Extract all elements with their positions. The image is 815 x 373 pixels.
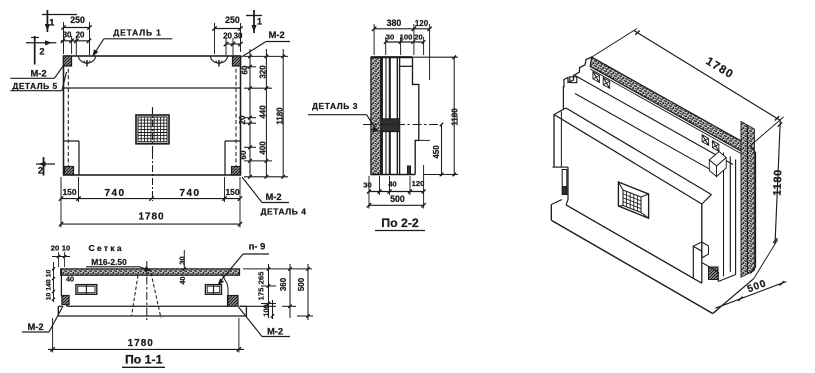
svg-text:740: 740 [104, 188, 125, 199]
svg-text:740: 740 [179, 188, 200, 199]
svg-text:40: 40 [388, 180, 396, 189]
svg-text:100: 100 [261, 304, 270, 316]
svg-text:1180: 1180 [772, 169, 785, 196]
svg-text:10: 10 [62, 244, 70, 253]
svg-text:500: 500 [297, 277, 306, 291]
svg-text:100: 100 [400, 33, 413, 42]
svg-text:30: 30 [63, 31, 72, 40]
svg-text:250: 250 [70, 15, 85, 25]
svg-text:40: 40 [66, 275, 74, 284]
svg-text:М-2: М-2 [267, 327, 283, 337]
svg-text:С е т к а: С е т к а [88, 243, 121, 253]
svg-text:По 1-1: По 1-1 [125, 353, 163, 367]
svg-text:440: 440 [259, 105, 268, 119]
svg-text:п- 9: п- 9 [249, 242, 266, 252]
svg-text:М-2: М-2 [27, 322, 43, 332]
svg-text:500: 500 [390, 194, 405, 204]
svg-text:150: 150 [62, 187, 76, 197]
svg-text:М-2: М-2 [30, 69, 46, 79]
svg-text:30: 30 [234, 32, 243, 41]
svg-text:20: 20 [223, 32, 232, 41]
svg-text:20: 20 [51, 244, 59, 253]
svg-text:20: 20 [414, 33, 422, 42]
svg-text:ДЕТАЛЬ 5: ДЕТАЛЬ 5 [12, 81, 57, 91]
svg-text:120: 120 [412, 179, 425, 188]
svg-text:175: 175 [257, 287, 266, 300]
svg-text:320: 320 [259, 65, 268, 79]
svg-text:ДЕТАЛЬ 3: ДЕТАЛЬ 3 [312, 101, 358, 111]
svg-text:1780: 1780 [128, 338, 154, 349]
svg-text:360: 360 [279, 277, 288, 291]
svg-text:По 2-2: По 2-2 [381, 216, 419, 230]
svg-text:1: 1 [257, 17, 262, 27]
svg-text:2: 2 [38, 166, 43, 176]
svg-text:140: 140 [46, 279, 53, 291]
svg-text:10: 10 [46, 293, 53, 301]
svg-text:1180: 1180 [451, 108, 460, 126]
svg-text:120: 120 [415, 19, 429, 28]
svg-text:250: 250 [225, 15, 240, 25]
svg-text:30: 30 [177, 256, 186, 264]
svg-text:2: 2 [39, 47, 44, 57]
svg-text:400: 400 [259, 141, 268, 155]
svg-text:ДЕТАЛЬ 1: ДЕТАЛЬ 1 [113, 28, 162, 38]
svg-text:М-2: М-2 [265, 192, 281, 202]
svg-text:10: 10 [46, 270, 53, 278]
svg-text:150: 150 [225, 187, 239, 197]
svg-text:М16-2.50: М16-2.50 [91, 257, 127, 267]
svg-text:1: 1 [49, 18, 54, 28]
svg-text:20: 20 [76, 31, 85, 40]
svg-text:ДЕТАЛЬ 4: ДЕТАЛЬ 4 [260, 207, 306, 217]
svg-text:1180: 1180 [276, 107, 285, 125]
svg-text:40: 40 [178, 276, 187, 284]
svg-text:450: 450 [432, 145, 441, 159]
svg-text:1780: 1780 [138, 212, 164, 223]
svg-text:20: 20 [238, 115, 247, 124]
svg-text:60: 60 [240, 65, 249, 74]
svg-text:60: 60 [239, 150, 248, 159]
svg-text:265: 265 [257, 271, 266, 284]
svg-text:380: 380 [387, 18, 402, 28]
svg-text:30: 30 [363, 181, 371, 190]
svg-text:М-2: М-2 [269, 30, 285, 40]
svg-text:30: 30 [386, 33, 394, 42]
